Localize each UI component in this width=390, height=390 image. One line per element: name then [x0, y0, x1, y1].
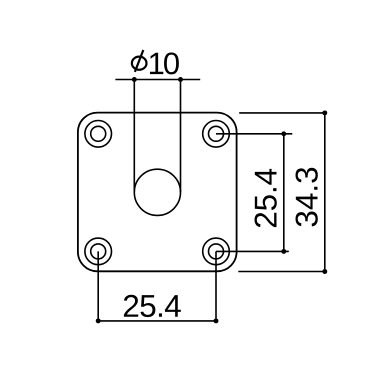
- dimension line 25.4 right (vertical): [283, 134, 285, 252]
- screw hole top-right inner: [209, 126, 224, 141]
- label phi symbol: [132, 50, 147, 72]
- extension line 25.4 bottom right (from bottom-right hole center): [215, 251, 217, 321]
- extension line 34.3 bottom (from plate bottom edge): [238, 271, 324, 273]
- screw hole bottom-left outer: [85, 238, 112, 265]
- dimension line phi10 (horizontal, top): [115, 79, 200, 81]
- dimension dot 25.4 right bottom: [281, 249, 286, 254]
- label 25.4 right (rotated): [255, 169, 277, 227]
- extension line 25.4 right top (from top-right hole center): [216, 133, 292, 135]
- screw hole bottom-right inner: [209, 244, 224, 259]
- dimension line 34.3 (vertical): [324, 113, 326, 272]
- dimension dot 25.4 bottom left: [96, 318, 101, 323]
- dimension line 25.4 bottom (horizontal): [98, 320, 216, 322]
- extension line phi10 left (tangent to center hole): [133, 80, 135, 193]
- label 34.3 (rotated): [296, 168, 318, 227]
- center hole (diameter 10): [134, 169, 180, 215]
- screw hole bottom-left inner: [91, 244, 106, 259]
- label 25.4 bottom: [124, 295, 181, 317]
- extension line 25.4 bottom left (from bottom-left hole center): [97, 251, 99, 321]
- screw hole top-left inner: [91, 126, 106, 141]
- dimension dot 34.3 bottom: [322, 269, 327, 274]
- screw hole top-left outer: [85, 121, 112, 148]
- plate outline (rounded-square jack plate): [78, 113, 237, 272]
- extension line 34.3 top (from plate top edge): [239, 112, 325, 114]
- screw hole top-right outer: [203, 121, 230, 148]
- dimension dot phi10 left: [132, 77, 137, 82]
- dimension dot 25.4 bottom right: [214, 318, 219, 323]
- label 10 text: [150, 52, 179, 74]
- dimension dot 34.3 top: [322, 110, 327, 115]
- screw hole bottom-right outer: [203, 238, 230, 265]
- dimension dot 25.4 right top: [281, 131, 286, 136]
- extension line 25.4 right bottom (from bottom-right hole center): [216, 250, 289, 252]
- extension line phi10 right (tangent to center hole): [180, 80, 182, 193]
- dimension dot phi10 right: [178, 77, 183, 82]
